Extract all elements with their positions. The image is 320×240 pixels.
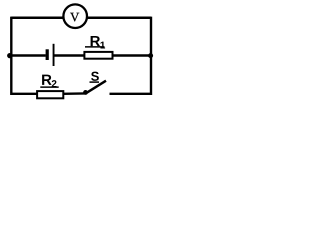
wire: top rail right segment — [87, 17, 151, 19]
junction node left (middle rail meets left wire) — [7, 53, 12, 58]
junction node right (middle rail meets right wire) — [148, 53, 153, 58]
voltmeter circle — [63, 4, 87, 28]
resistor R2 label — [42, 75, 56, 88]
switch S pivot dot — [83, 90, 88, 95]
resistor R1 box — [84, 52, 112, 59]
voltmeter label V — [70, 13, 79, 22]
switch S label underline — [90, 81, 100, 83]
wire: middle rail from left wire to battery — [11, 54, 45, 56]
resistor R1 label — [91, 36, 106, 49]
wire: top rail left segment — [11, 17, 63, 19]
wire: left vertical — [10, 17, 12, 95]
background — [0, 0, 156, 101]
resistor R2 box — [37, 91, 63, 98]
battery cell: long thin plate (positive) — [53, 44, 55, 66]
wire: R2 to switch pivot — [63, 92, 85, 95]
wire: right vertical — [150, 17, 152, 95]
resistor R2 label underline — [40, 86, 58, 88]
battery cell: short thick plate (negative) — [46, 49, 49, 60]
wire: switch right terminal to right wire — [110, 93, 152, 95]
resistor R1 label underline — [85, 46, 105, 48]
switch S label — [91, 72, 99, 81]
wire: R1 to right wire — [113, 54, 151, 56]
switch S blade — [85, 81, 106, 94]
wire: battery to R1 — [54, 54, 84, 56]
wire: bottom rail from left wire to R2 — [11, 93, 37, 95]
